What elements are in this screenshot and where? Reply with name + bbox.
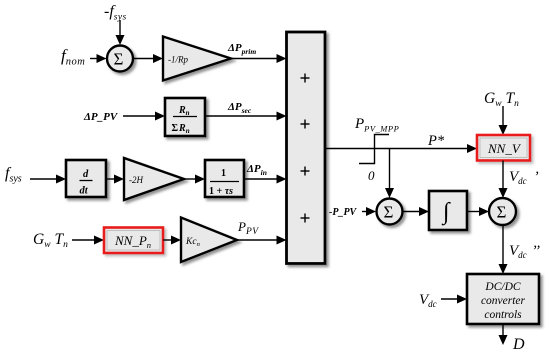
- svg-text:converter: converter: [481, 295, 526, 307]
- wire gain -1/Rp to sum block: [231, 58, 277, 60]
- summer S1 (sigma): [107, 46, 133, 72]
- gain block -1/Rp: [163, 37, 231, 81]
- svg-text:Σ: Σ: [114, 50, 124, 69]
- wire f_nom to summer S1: [90, 58, 97, 60]
- wire -f_sys down to summer S1: [119, 20, 121, 36]
- block Rn/sum Rn: [165, 98, 205, 136]
- summer S3 (sigma): [489, 198, 516, 225]
- svg-text:-P_PV: -P_PV: [329, 207, 358, 218]
- wire sum block output to NN_V: [325, 148, 468, 150]
- svg-text:D: D: [512, 336, 525, 353]
- gain block Kc_n: [181, 218, 237, 263]
- svg-text:1: 1: [221, 168, 226, 179]
- svg-text:d: d: [83, 169, 89, 180]
- wire DC/DC controls output D: [502, 324, 504, 336]
- svg-text:controls: controls: [484, 309, 522, 321]
- block d/dt: [66, 160, 106, 197]
- svg-text:Σ: Σ: [497, 203, 507, 222]
- wire integrator to summer S3: [467, 211, 480, 213]
- block NN_V (red): [477, 135, 530, 161]
- svg-text:1 + τs: 1 + τs: [209, 186, 233, 197]
- plus sign 1: [301, 74, 310, 83]
- wire Kc_n to sum block: [237, 239, 277, 241]
- wire f_sys to block d/dt: [30, 178, 57, 180]
- svg-text:-1/Rp: -1/Rp: [168, 55, 188, 65]
- svg-text:P*: P*: [427, 133, 445, 149]
- plus sign 4: [301, 214, 310, 223]
- svg-text:dt: dt: [80, 186, 89, 197]
- wire Rn/SRn to sum block: [205, 115, 277, 117]
- svg-text:NN_V: NN_V: [487, 141, 522, 156]
- svg-text:∫: ∫: [441, 199, 451, 226]
- wire summer S2 to integrator: [403, 211, 421, 213]
- wire 1/(1+ts) to sum block: [244, 178, 277, 180]
- plus sign 3: [301, 167, 310, 176]
- svg-text:-2H: -2H: [129, 175, 143, 185]
- wire summer S3 down to DC/DC controls: [502, 225, 504, 265]
- saturation symbol: [359, 135, 389, 164]
- gain block -2H: [124, 158, 184, 200]
- wire -P_PV to summer S2: [362, 211, 367, 213]
- wire NN_P_n to gain Kc_n: [163, 239, 172, 241]
- svg-text:DC/DC: DC/DC: [484, 281, 520, 293]
- wire dP_PV to block Rn/SRn: [123, 115, 156, 117]
- wire branch down to summer S2: [389, 149, 391, 190]
- svg-text:NN_Pn: NN_Pn: [114, 233, 151, 250]
- wire NN_V down to summer S3: [502, 161, 504, 190]
- block DC/DC converter controls: [467, 274, 539, 324]
- integrator block: [429, 191, 467, 230]
- svg-text:ΔP_PV: ΔP_PV: [83, 111, 119, 123]
- sum block (vertical adder): [287, 32, 326, 264]
- block NN_P_n (red): [104, 228, 163, 254]
- wire G_w T_n to NN_P_n: [72, 239, 95, 241]
- wire d/dt to gain -2H: [106, 178, 115, 180]
- summer S2 (sigma): [377, 199, 403, 225]
- svg-text:Σ: Σ: [384, 203, 394, 222]
- plus sign 2: [301, 120, 310, 129]
- wire G_w T_n down to NN_V: [502, 106, 504, 126]
- block 1/(1+ts): [205, 160, 244, 197]
- svg-text:0: 0: [368, 168, 375, 183]
- wire -2H to block 1/(1+ts): [184, 178, 196, 180]
- wire V_dc to DC/DC controls: [441, 298, 458, 300]
- wire summer S1 to gain -1/Rp: [133, 58, 154, 60]
